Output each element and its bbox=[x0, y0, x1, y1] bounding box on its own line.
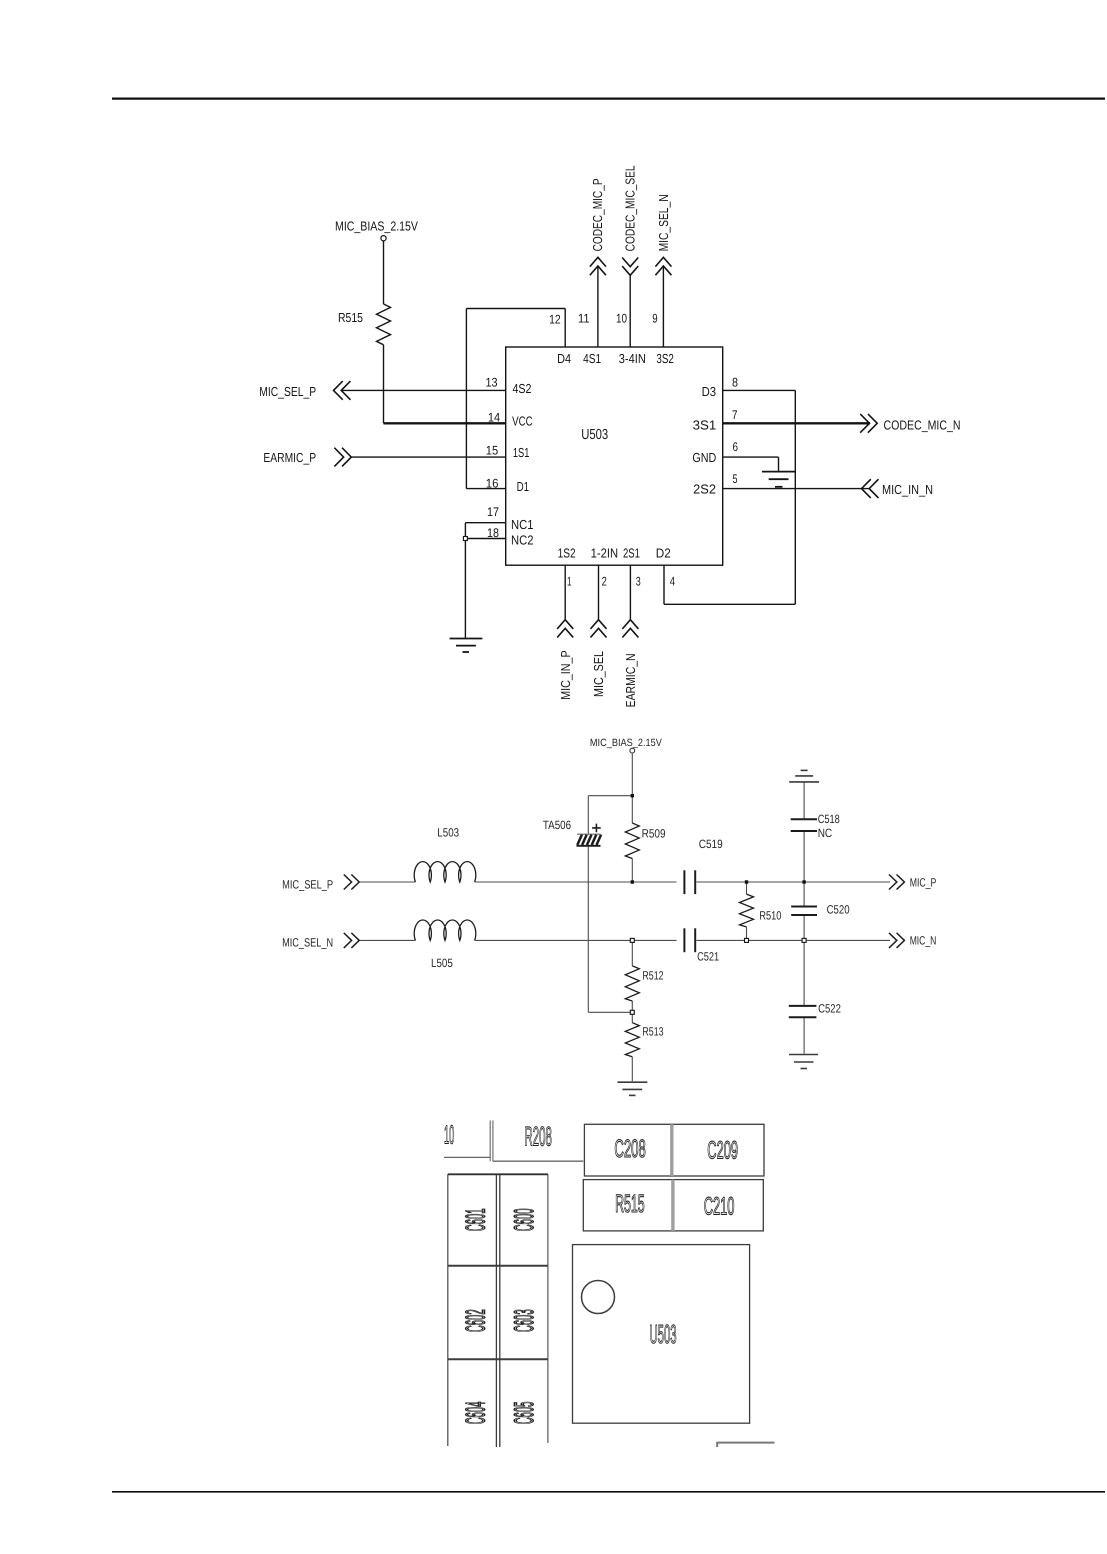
svg-text:MIC_SEL: MIC_SEL bbox=[591, 651, 606, 697]
svg-text:10: 10 bbox=[444, 1120, 454, 1150]
svg-text:NC: NC bbox=[818, 826, 833, 840]
svg-text:R208: R208 bbox=[525, 1122, 552, 1152]
svg-text:R512: R512 bbox=[642, 969, 663, 983]
svg-text:D3: D3 bbox=[702, 384, 717, 399]
svg-text:L503: L503 bbox=[437, 826, 459, 840]
svg-text:1S1: 1S1 bbox=[513, 445, 530, 460]
svg-text:1-2IN: 1-2IN bbox=[591, 546, 619, 561]
svg-text:C600: C600 bbox=[509, 1209, 539, 1232]
svg-text:3: 3 bbox=[636, 575, 641, 589]
svg-text:2S1: 2S1 bbox=[623, 546, 640, 561]
svg-text:CODEC_MIC_SEL: CODEC_MIC_SEL bbox=[623, 165, 638, 251]
svg-text:MIC_IN_N: MIC_IN_N bbox=[882, 482, 933, 497]
svg-text:C519: C519 bbox=[699, 837, 723, 851]
svg-text:3S1: 3S1 bbox=[693, 417, 717, 432]
svg-text:4S1: 4S1 bbox=[583, 351, 601, 366]
svg-text:14: 14 bbox=[488, 411, 500, 425]
svg-text:18: 18 bbox=[487, 526, 499, 540]
svg-text:4: 4 bbox=[670, 575, 675, 589]
svg-text:EARMIC_P: EARMIC_P bbox=[263, 450, 316, 465]
svg-text:D2: D2 bbox=[656, 546, 671, 561]
svg-text:7: 7 bbox=[732, 408, 738, 422]
svg-text:GND: GND bbox=[692, 450, 716, 465]
svg-text:4S2: 4S2 bbox=[513, 381, 532, 396]
svg-text:8: 8 bbox=[732, 376, 738, 390]
svg-text:1S2: 1S2 bbox=[558, 546, 576, 561]
svg-text:6: 6 bbox=[733, 440, 739, 454]
svg-text:CODEC_MIC_P: CODEC_MIC_P bbox=[590, 178, 605, 251]
svg-text:R509: R509 bbox=[642, 827, 666, 841]
svg-text:L505: L505 bbox=[431, 956, 453, 970]
svg-text:3S2: 3S2 bbox=[656, 351, 674, 366]
svg-text:C522: C522 bbox=[818, 1002, 841, 1016]
svg-text:NC2: NC2 bbox=[511, 533, 534, 548]
svg-text:C210: C210 bbox=[704, 1193, 735, 1221]
svg-text:U503: U503 bbox=[581, 427, 608, 443]
svg-text:D4: D4 bbox=[557, 351, 571, 366]
svg-text:MIC_IN_P: MIC_IN_P bbox=[558, 650, 573, 699]
svg-text:MIC_N: MIC_N bbox=[910, 934, 937, 948]
svg-text:C602: C602 bbox=[460, 1309, 490, 1332]
svg-text:MIC_BIAS_2.15V: MIC_BIAS_2.15V bbox=[590, 737, 662, 749]
svg-text:C604: C604 bbox=[460, 1402, 490, 1425]
svg-text:U503: U503 bbox=[650, 1319, 677, 1349]
svg-text:MIC_P: MIC_P bbox=[910, 876, 937, 890]
svg-text:C208: C208 bbox=[614, 1135, 645, 1163]
svg-text:17: 17 bbox=[487, 505, 499, 519]
svg-text:1: 1 bbox=[567, 575, 572, 589]
svg-text:MIC_SEL_N: MIC_SEL_N bbox=[656, 194, 671, 251]
svg-text:3-4IN: 3-4IN bbox=[619, 351, 646, 366]
svg-text:D1: D1 bbox=[517, 479, 530, 494]
svg-text:MIC_BIAS_2.15V: MIC_BIAS_2.15V bbox=[335, 219, 418, 234]
svg-text:12: 12 bbox=[549, 312, 561, 326]
svg-text:16: 16 bbox=[486, 477, 499, 491]
svg-text:5: 5 bbox=[733, 472, 738, 486]
svg-text:C518: C518 bbox=[818, 812, 840, 826]
svg-text:R515: R515 bbox=[615, 1190, 645, 1218]
svg-text:EARMIC_N: EARMIC_N bbox=[623, 653, 638, 707]
svg-text:9: 9 bbox=[652, 312, 657, 326]
svg-text:15: 15 bbox=[486, 444, 498, 458]
svg-text:MIC_SEL_N: MIC_SEL_N bbox=[282, 936, 333, 950]
svg-text:R515: R515 bbox=[338, 310, 363, 325]
svg-text:VCC: VCC bbox=[512, 413, 533, 428]
svg-text:10: 10 bbox=[616, 312, 627, 326]
svg-text:C520: C520 bbox=[827, 903, 850, 917]
svg-text:R513: R513 bbox=[642, 1025, 663, 1039]
svg-text:2: 2 bbox=[602, 575, 607, 589]
svg-text:C603: C603 bbox=[509, 1309, 539, 1332]
svg-text:11: 11 bbox=[578, 312, 590, 326]
svg-text:MIC_SEL_P: MIC_SEL_P bbox=[282, 878, 333, 892]
svg-text:C209: C209 bbox=[707, 1137, 738, 1165]
svg-text:2S2: 2S2 bbox=[693, 482, 716, 497]
svg-text:MIC_SEL_P: MIC_SEL_P bbox=[259, 384, 316, 399]
svg-text:C605: C605 bbox=[509, 1402, 539, 1425]
svg-text:CODEC_MIC_N: CODEC_MIC_N bbox=[884, 417, 961, 432]
svg-text:C601: C601 bbox=[460, 1209, 490, 1232]
svg-text:NC1: NC1 bbox=[511, 517, 534, 532]
svg-text:C521: C521 bbox=[697, 950, 719, 964]
svg-text:R510: R510 bbox=[759, 909, 781, 923]
svg-text:TA506: TA506 bbox=[543, 818, 571, 832]
svg-text:13: 13 bbox=[486, 376, 498, 390]
